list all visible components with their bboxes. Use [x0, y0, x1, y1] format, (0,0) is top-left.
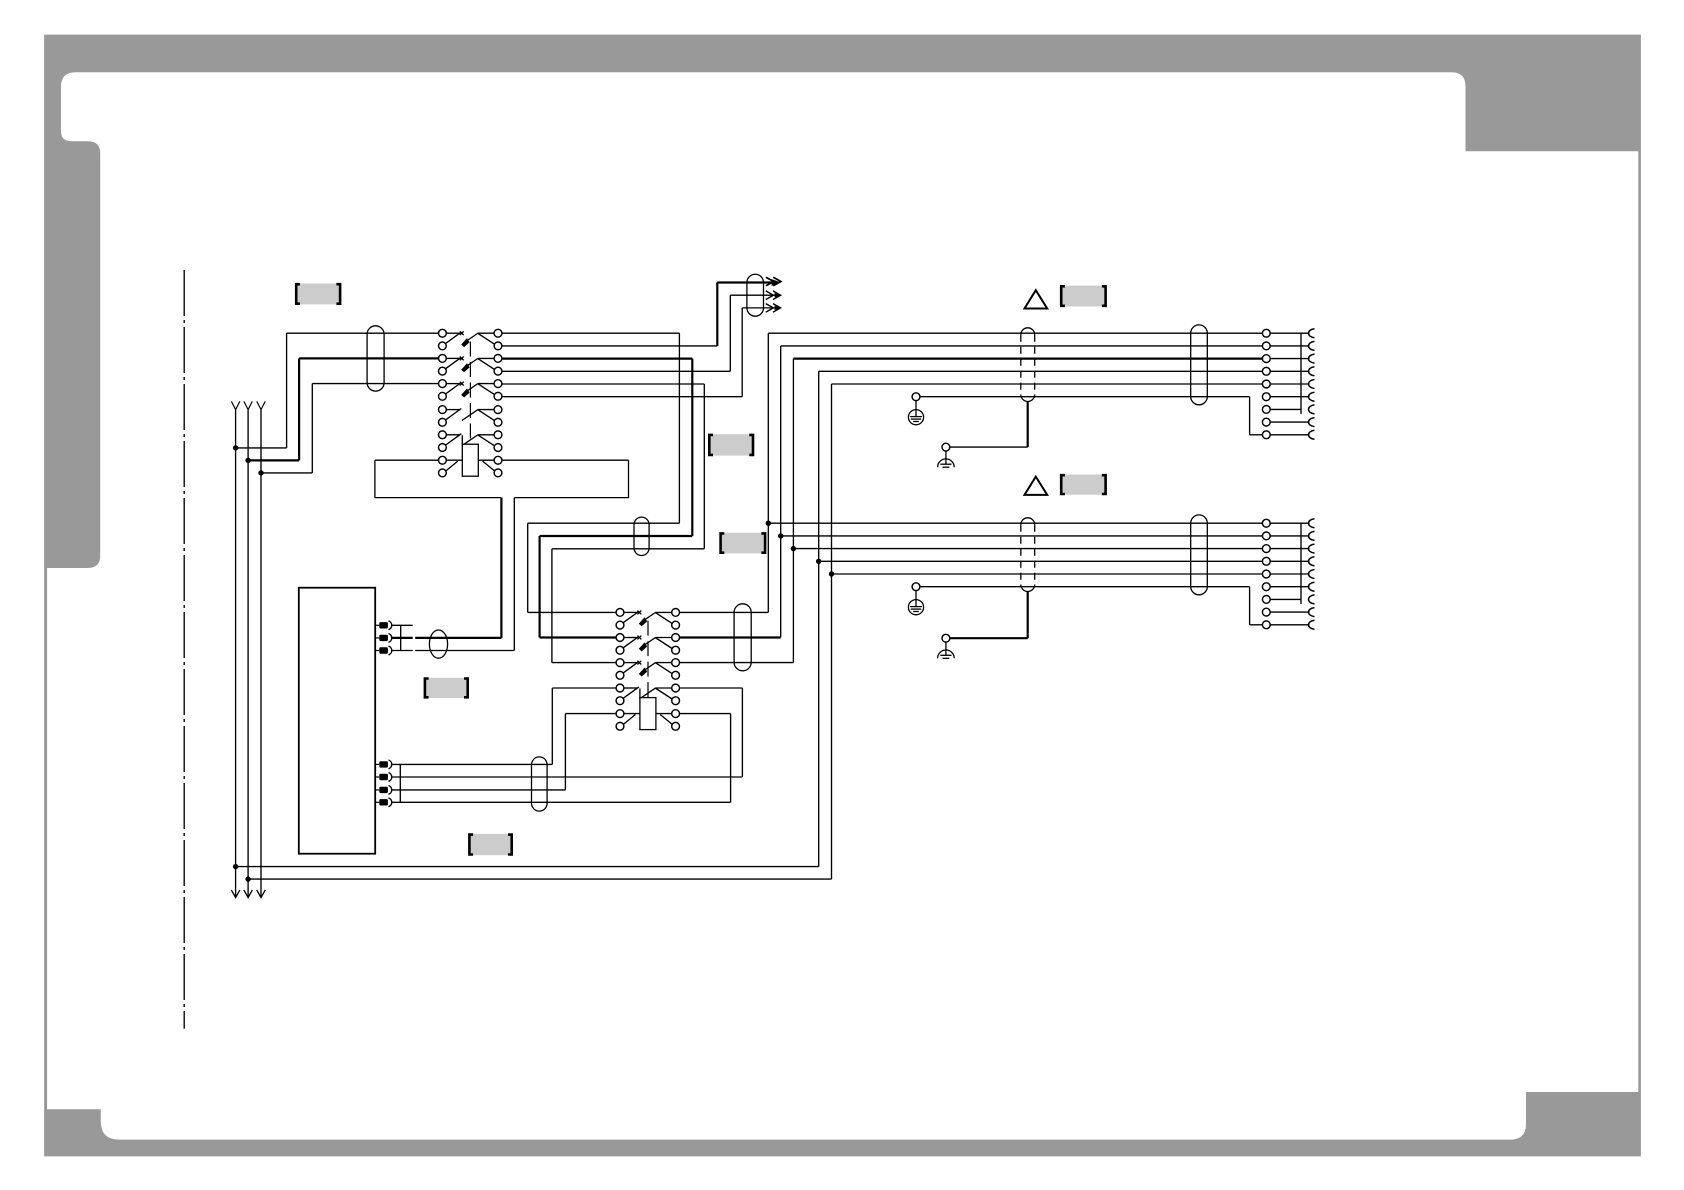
- main PCB board box: [299, 588, 375, 854]
- wire K1 row3 lower to exit arrow 3: [502, 396, 742, 398]
- protective earth terminal CN3: [912, 393, 920, 401]
- relay K1 coil row: [375, 444, 629, 477]
- wire L1 to K1 row1: [236, 447, 287, 449]
- exit arrow 2: [730, 294, 777, 296]
- connector CN3 bus line: [1300, 333, 1302, 414]
- cable bundle oval at exit arrows: [747, 274, 764, 316]
- label K2: [425, 678, 468, 698]
- connector CN2 pin1: [375, 760, 392, 769]
- relay K2 link row4 to coil: [639, 689, 641, 699]
- chassis ground terminal CN3: [942, 443, 950, 451]
- wire CN2 pin3 to K2 coil left: [392, 789, 565, 791]
- connector CN3 contacts: [1262, 329, 1314, 440]
- wire CN2 pin4 to K2 coil right: [392, 801, 731, 803]
- wire tap to lower connector row4: [819, 560, 1263, 562]
- wire K1 row1 upper to K2 row1: [502, 332, 680, 334]
- wire CN1 pin1 stub: [392, 624, 413, 626]
- node L1 bottom tap: [233, 864, 238, 869]
- wire shield drain CN4: [1027, 592, 1029, 639]
- node L1 tap: [233, 445, 238, 450]
- wire tap to lower connector row3: [793, 548, 1262, 550]
- wire CN2 pin bus: [399, 764, 401, 802]
- connector CN4 bus line: [1300, 523, 1302, 604]
- exit arrow 3: [742, 307, 777, 309]
- relay K2 contacts row4: [616, 684, 679, 705]
- wire PE to connector row9 CN3: [920, 396, 1250, 398]
- warning triangle 2: [1025, 477, 1048, 495]
- protective earth terminal CN4: [912, 583, 920, 591]
- cable bundle oval K2 feed: [634, 517, 649, 555]
- wire tap to lower connector row1: [768, 522, 1262, 524]
- wire tap to lower connector row2: [781, 535, 1263, 537]
- label cable A: [709, 434, 753, 455]
- exit arrow 1 (thick): [717, 281, 777, 283]
- wire CN2 pin2 to K2 row4 right: [392, 776, 742, 778]
- connector CN1 pin1: [375, 621, 392, 630]
- wire bottom rail 2 to connector row5: [832, 383, 1263, 385]
- label warning 2: [1061, 475, 1105, 495]
- wire bottom rail 1 to connector row4: [819, 370, 1263, 372]
- wire K1 row2 upper to K2 row2 (thick): [502, 358, 692, 360]
- relay K2 mechanical link: [647, 621, 649, 698]
- wire K2 row2 right to connector row2 (thick feed): [680, 636, 781, 638]
- wire K1 row1 lower to exit arrow 1: [502, 345, 717, 347]
- warning triangle 1: [1025, 290, 1048, 308]
- terminal block box TB1: [375, 460, 629, 497]
- mains input line L1: [235, 410, 237, 898]
- relay K1 contacts row2: [439, 355, 502, 376]
- label cable B: [721, 533, 766, 554]
- wire to K2 row3 left: [552, 548, 704, 550]
- wire L3 to K1 row3: [261, 472, 312, 474]
- wire PE to connector row9 CN4: [920, 586, 1250, 588]
- cable oval CN1: [429, 630, 447, 658]
- wire CN1 pin bus: [400, 625, 402, 650]
- wire bottom rail from L1: [236, 866, 819, 868]
- relay K1 contacts row5: [439, 431, 502, 452]
- label board: [469, 834, 511, 855]
- cable bundle oval at K1 input: [367, 326, 384, 391]
- node L3 tap: [258, 470, 263, 475]
- wire K1 row2 lower to exit arrow 2: [502, 370, 730, 372]
- wire shield drain CN3: [1027, 402, 1029, 448]
- mains input line L2: [247, 410, 249, 898]
- connector CN4 contacts: [1262, 519, 1314, 630]
- connector CN2 pin4: [375, 798, 392, 807]
- wire CN2 pin1 to K2 row4 left: [392, 763, 552, 765]
- wire K2 row3 right to connector row3: [680, 662, 794, 664]
- connector CN2 pin3: [375, 786, 392, 795]
- cable bundle oval CN3: [1191, 325, 1208, 405]
- mains input line L3: [260, 410, 262, 898]
- label warning 1: [1061, 286, 1105, 307]
- cable bundle oval K2 right: [734, 604, 751, 671]
- cable shield (dashed oval) CN4: [1021, 518, 1035, 525]
- relay K2 contacts row2: [616, 634, 679, 655]
- relay K2 contacts row3: [616, 659, 679, 680]
- chassis ground terminal CN4: [942, 634, 950, 642]
- node L2 tap: [245, 458, 250, 463]
- cable bundle oval CN4: [1191, 515, 1208, 595]
- node L2 bottom tap: [245, 876, 250, 881]
- wire L2 to K1 row2 (thick): [248, 459, 299, 461]
- relay K2 coil row: [616, 698, 680, 731]
- cable shield (dashed oval) CN3: [1021, 328, 1035, 335]
- relay K1 contacts row1: [439, 329, 502, 349]
- wire CN1 pin2 to TB1 (thick): [392, 637, 413, 639]
- wire to K2 row2 left (thick): [540, 535, 693, 537]
- relay K1 link row5 to coil: [461, 435, 463, 444]
- connector CN1 pin2: [375, 634, 392, 643]
- wire bottom rail from L2: [248, 878, 831, 880]
- wire CN1 pin3 to TB1: [392, 650, 413, 652]
- wire to K2 row1 left: [528, 522, 680, 524]
- wire tap to lower connector row5: [832, 573, 1263, 575]
- relay K1 mechanical link: [469, 342, 471, 444]
- cable oval CN2: [532, 757, 548, 811]
- wire K1 row3 upper to K2 row3: [502, 383, 704, 385]
- label K1: [296, 284, 340, 305]
- connector CN1 pin3: [375, 646, 392, 655]
- relay K2 contacts row1: [616, 609, 679, 629]
- relay K1 contacts row3: [439, 380, 502, 400]
- wire K2 row1 right to connector row1: [680, 611, 769, 613]
- connector CN2 pin2: [375, 773, 392, 782]
- chassis boundary line: [183, 270, 185, 1029]
- relay K1 contacts row4: [439, 406, 502, 426]
